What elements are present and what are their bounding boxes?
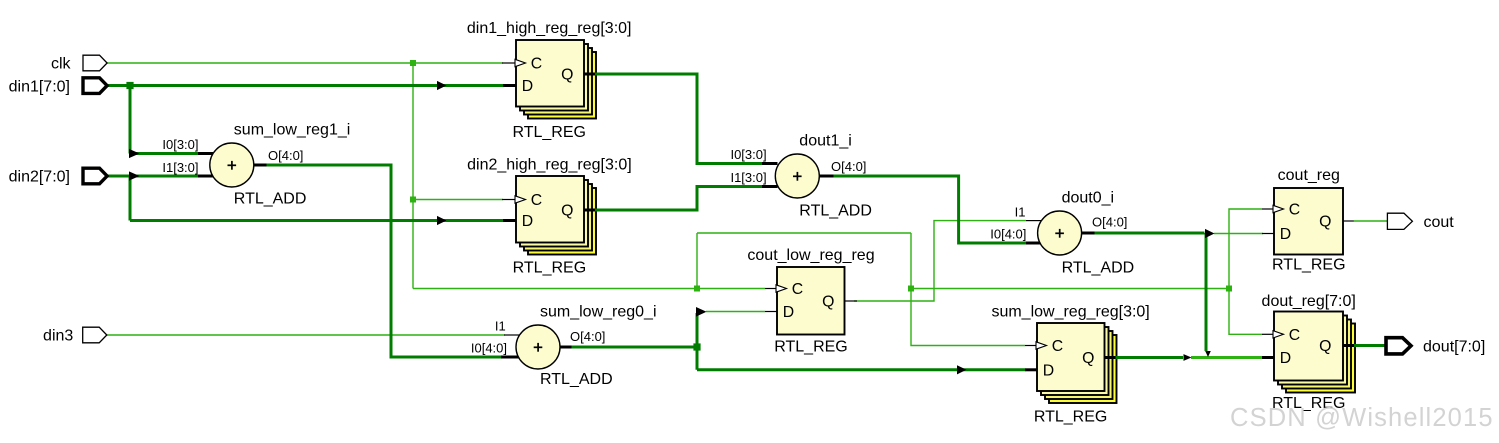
wire clk detour down x=911 — [910, 233, 912, 289]
wire clk horizontal to din1_high C — [107, 62, 503, 64]
wire bus din2 vertical drop x=129 — [129, 176, 132, 221]
pin stub dout0_i I0 — [1026, 242, 1040, 245]
svg-text:sum_low_reg1_i: sum_low_reg1_i — [234, 122, 351, 139]
wire din3 to sum_low_reg0_i I1 — [107, 334, 505, 336]
svg-text:Q: Q — [1082, 350, 1094, 367]
wire bus din1 to din1_high D — [107, 84, 504, 87]
svg-text:RTL_REG: RTL_REG — [1034, 409, 1108, 426]
svg-text:RTL_REG: RTL_REG — [513, 260, 587, 277]
register dout_reg[7:0] — [1262, 293, 1356, 412]
svg-text:D: D — [522, 78, 533, 95]
svg-text:Q: Q — [1319, 214, 1331, 231]
svg-text:O[4:0]: O[4:0] — [570, 329, 605, 344]
wire bus dout0_i O east then down x=1206 — [1094, 233, 1206, 351]
pin stub dout0_i I1 — [1026, 220, 1041, 222]
svg-text:C: C — [531, 56, 542, 73]
svg-text:I1[3:0]: I1[3:0] — [730, 170, 766, 185]
svg-text:I0[3:0]: I0[3:0] — [730, 147, 766, 162]
pin stub din2_high C — [502, 199, 516, 201]
wire bus din1_high Q to dout1_i I0 — [594, 74, 763, 164]
svg-text:D: D — [1280, 226, 1291, 243]
pin stub dout1_i I0 — [762, 162, 778, 165]
register cout_reg — [1272, 167, 1346, 274]
wire cout_low_reg Q to dout0_i I1 — [854, 221, 1026, 301]
register sum_low_reg_reg[3:0] — [991, 303, 1149, 425]
pin stub sum_low_reg0_i I0 — [501, 356, 519, 359]
svg-text:D: D — [1280, 350, 1291, 367]
svg-text:O[4:0]: O[4:0] — [831, 159, 866, 174]
svg-text:D: D — [1043, 362, 1054, 379]
wire bus junction up to cout_low D tap — [696, 313, 699, 347]
svg-text:din1_high_reg_reg[3:0]: din1_high_reg_reg[3:0] — [467, 20, 632, 37]
pin stub cout_reg D — [1262, 233, 1274, 235]
pin stub dout1_i O — [819, 175, 834, 178]
svg-text:I0[4:0]: I0[4:0] — [990, 227, 1026, 242]
pin stub dout_reg C — [1262, 333, 1274, 335]
svg-text:din3: din3 — [43, 328, 73, 345]
register din1_high_reg_reg[3:0] — [467, 20, 632, 141]
wire bus din2 to din2_high D — [130, 219, 503, 222]
svg-text:C: C — [531, 192, 542, 209]
arrowhead din1 D wire — [437, 81, 447, 90]
junction clk at x=1229 y=288.5 — [1226, 286, 1232, 292]
wire clk branch up x=1229 to cout_reg C — [1229, 209, 1262, 289]
svg-text:dout_reg[7:0]: dout_reg[7:0] — [1262, 293, 1356, 310]
wire bus din2_high Q to dout1_i I1 — [594, 187, 763, 211]
pin stub sum_low_reg0_i O — [559, 346, 572, 349]
svg-text:Q: Q — [561, 203, 573, 220]
svg-text:cout_low_reg_reg: cout_low_reg_reg — [747, 247, 874, 264]
pin stub din1_high Q — [584, 73, 595, 76]
svg-text:I1[3:0]: I1[3:0] — [162, 160, 198, 175]
svg-text:RTL_REG: RTL_REG — [512, 124, 586, 141]
arrowhead dout0_i O merge — [1205, 351, 1211, 357]
pin stub cout_low C — [765, 288, 777, 290]
svg-text:cout: cout — [1424, 214, 1455, 231]
pin stub din1_high D — [503, 84, 516, 87]
junction clk at din1_high column — [410, 60, 416, 66]
svg-text:RTL_ADD: RTL_ADD — [540, 371, 613, 388]
output port cout — [1387, 213, 1412, 229]
pin stub sum_low_reg1_i I1 — [198, 175, 213, 178]
svg-text:RTL_ADD: RTL_ADD — [1062, 260, 1135, 277]
arrowhead cout_reg D tap — [1205, 229, 1215, 238]
wire cout_reg Q to cout port — [1353, 220, 1388, 222]
svg-text:C: C — [1289, 202, 1300, 219]
wire dout_reg D merged segment — [1191, 356, 1262, 359]
wire cout_low_reg D tap — [706, 311, 765, 313]
register cout_low_reg_reg — [747, 247, 874, 355]
svg-text:dout[7:0]: dout[7:0] — [1423, 339, 1485, 356]
wire clk detour up x=697 to y=233 — [696, 233, 698, 289]
junction clk at x=697 y=288.5 — [694, 286, 700, 292]
wire bus sum_low_reg1_i O to sum_low_reg0_i I0 — [266, 165, 502, 357]
svg-text:din2_high_reg_reg[3:0]: din2_high_reg_reg[3:0] — [467, 156, 632, 173]
svg-text:C: C — [1289, 327, 1300, 344]
wire clk branch to din2_high C — [413, 199, 503, 201]
input port din2[7:0] — [83, 168, 107, 184]
arrowhead sum_low_reg1_i I1 wire — [129, 171, 140, 180]
svg-text:D: D — [522, 213, 533, 230]
wire clk run y=288.5 x=911 to 1229 — [911, 288, 1229, 290]
pin stub sum_low_reg D — [1025, 368, 1037, 371]
pin stub dout0_i O — [1081, 232, 1095, 235]
wire clk detour horizontal y=233 — [697, 232, 911, 234]
junction clk at din2_high branch — [410, 197, 416, 203]
svg-text:D: D — [783, 304, 794, 321]
adder sum_low_reg0_i — [516, 304, 657, 388]
pin stub cout_low Q — [845, 300, 858, 302]
pin stub cout_low D — [765, 311, 777, 313]
pin stub cout_reg Q — [1343, 220, 1354, 222]
pin stub din2_high D — [503, 219, 516, 222]
svg-text:sum_low_reg_reg[3:0]: sum_low_reg_reg[3:0] — [991, 303, 1149, 320]
svg-text:C: C — [1052, 338, 1063, 355]
svg-text:RTL_REG: RTL_REG — [1272, 256, 1346, 273]
svg-text:din2[7:0]: din2[7:0] — [9, 169, 70, 186]
arrowhead dout_reg D wire — [1184, 354, 1192, 361]
svg-text:sum_low_reg0_i: sum_low_reg0_i — [540, 304, 657, 321]
pin stub dout_reg Q — [1343, 344, 1354, 347]
input port din3 — [83, 327, 107, 343]
wire clk bottom run y=288.5 to cout_low C — [413, 288, 765, 290]
arrowhead sum_low_reg D wire — [957, 365, 967, 374]
adder dout0_i — [1038, 190, 1135, 277]
output port dout[7:0] — [1386, 338, 1411, 354]
svg-text:cout_reg: cout_reg — [1278, 167, 1340, 184]
input port din1[7:0] — [83, 78, 107, 94]
junction sum_low_reg0_i O split — [693, 343, 700, 350]
svg-text:din1[7:0]: din1[7:0] — [9, 78, 70, 95]
svg-text:I0[3:0]: I0[3:0] — [162, 137, 198, 152]
svg-text:I1: I1 — [1015, 204, 1026, 219]
pin stub din2_high Q — [584, 209, 595, 212]
junction clk at x=911 y=288.5 — [908, 286, 914, 292]
svg-text:O[4:0]: O[4:0] — [268, 148, 303, 163]
wire carry tap to cout_reg D — [1214, 233, 1263, 235]
wire clk vertical trunk x=413 — [412, 63, 414, 289]
wire clk branch down x=1229 to dout_reg C — [1229, 289, 1262, 335]
pin stub dout_reg D — [1262, 356, 1274, 359]
svg-text:Q: Q — [561, 67, 573, 84]
svg-text:Q: Q — [822, 294, 834, 311]
svg-text:RTL_REG: RTL_REG — [774, 339, 848, 356]
pin stub sum_low_reg Q — [1105, 356, 1116, 359]
arrowhead sum_low_reg1_i I0 wire — [129, 149, 140, 158]
svg-text:I1: I1 — [495, 319, 506, 334]
svg-text:RTL_ADD: RTL_ADD — [799, 203, 872, 220]
register din2_high_reg_reg[3:0] — [467, 156, 632, 276]
pin stub sum_low_reg1_i O — [253, 164, 267, 167]
pin stub din1_high C — [502, 62, 516, 64]
svg-text:CSDN @Wishell2015: CSDN @Wishell2015 — [1230, 404, 1494, 432]
wire bus sum_low_reg Q east — [1115, 356, 1184, 359]
wire bus din2 to sum_low_reg1_i I1 — [107, 175, 200, 178]
input port clk — [83, 55, 107, 71]
wire bus din1 vertical drop x=129 — [129, 86, 132, 154]
svg-text:C: C — [792, 281, 803, 298]
svg-text:dout1_i: dout1_i — [799, 133, 852, 150]
svg-text:RTL_ADD: RTL_ADD — [234, 191, 307, 208]
pin stub cout_reg C — [1262, 208, 1274, 210]
pin stub sum_low_reg C — [1025, 345, 1037, 347]
adder dout1_i — [775, 133, 872, 220]
svg-text:I0[4:0]: I0[4:0] — [471, 341, 507, 356]
svg-text:O[4:0]: O[4:0] — [1092, 215, 1127, 230]
wire bus sum_low_reg0_i O to junction — [571, 346, 697, 349]
wire bus din1 to sum_low_reg1_i I0 — [130, 152, 199, 155]
wire bus junction down then east to sum_low_reg D — [697, 347, 1025, 370]
svg-text:Q: Q — [1319, 338, 1331, 355]
pin stub dout1_i I1 — [762, 185, 778, 188]
arrowhead cout_low D tap — [696, 307, 707, 317]
pin stub sum_low_reg0_i I1 — [504, 334, 520, 336]
arrowhead din2 D wire — [437, 216, 447, 225]
svg-text:clk: clk — [51, 56, 72, 73]
pin stub sum_low_reg1_i I0 — [198, 152, 213, 155]
junction din1 bus split — [126, 82, 133, 89]
wire bus dout_reg Q to dout port — [1353, 344, 1387, 347]
wire bus dout1_i O to dout0_i I0 — [833, 176, 1026, 243]
svg-text:dout0_i: dout0_i — [1062, 190, 1115, 207]
adder sum_low_reg1_i — [210, 122, 351, 208]
wire clk branch down x=911 to sum_low_reg C — [911, 289, 1025, 346]
